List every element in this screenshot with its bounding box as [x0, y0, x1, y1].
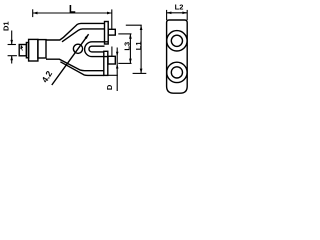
svg-text:D: D — [105, 84, 114, 90]
svg-text:L2: L2 — [175, 3, 184, 12]
svg-text:L3: L3 — [122, 42, 131, 51]
svg-text:L: L — [69, 3, 76, 15]
svg-text:L1: L1 — [134, 41, 143, 50]
svg-text:D1: D1 — [1, 21, 10, 31]
